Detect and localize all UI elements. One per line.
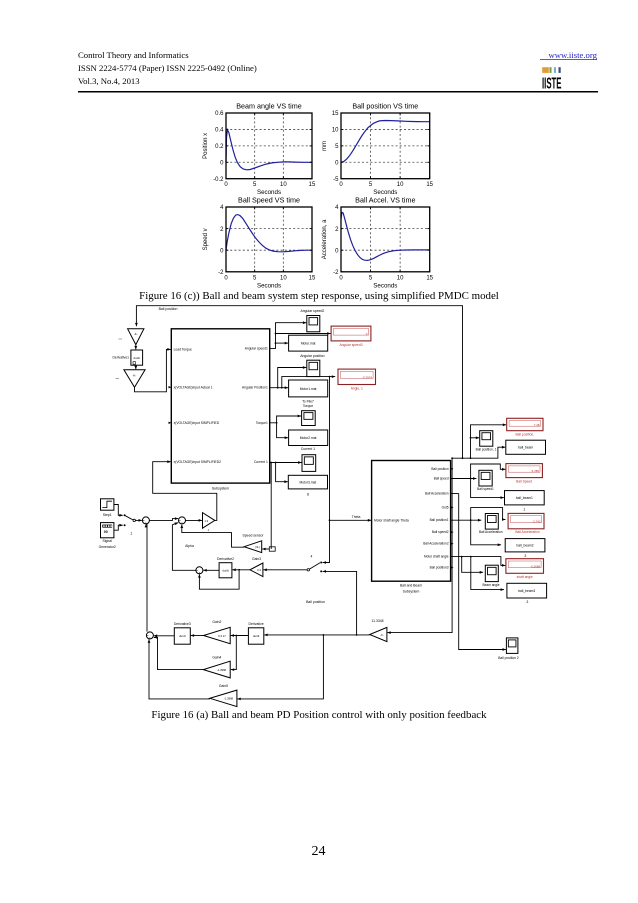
svg-text:Figure 16 (c)) Ball and beam: Figure 16 (c)) Ball and beam system step… [139, 290, 499, 302]
block Derivative3 [174, 622, 191, 644]
svg-text:Theta: Theta [352, 515, 361, 519]
svg-text:ISSN 2224-5774 (Paper) ISSN 22: ISSN 2224-5774 (Paper) ISSN 2225-0492 (O… [78, 63, 257, 73]
svg-text:5: 5 [335, 144, 339, 150]
svg-text:-K-: -K- [380, 633, 384, 637]
scope Torque [302, 411, 316, 426]
svg-text:2: 2 [220, 227, 224, 233]
block Derivative [248, 622, 263, 644]
wire speed sensor to sum2 [182, 525, 244, 548]
svg-text:Motor1.mat: Motor1.mat [300, 387, 317, 391]
plot xticklabels Ball position VS time [339, 182, 433, 188]
svg-text:Derivative2: Derivative2 [217, 557, 234, 561]
to-file Motor1.mat [289, 380, 328, 397]
svg-text:Ball position, 1: Ball position, 1 [476, 448, 497, 452]
wire theta down to switch2 top [323, 520, 330, 562]
wire Ball speed main [451, 477, 477, 480]
scope Ball position 2 [498, 638, 519, 660]
svg-text:Motor2.mat: Motor2.mat [300, 436, 317, 440]
svg-text:00: 00 [104, 530, 108, 534]
svg-text:5: 5 [369, 275, 373, 281]
svg-text:11.3348: 11.3348 [371, 619, 383, 623]
svg-text:mm: mm [322, 141, 328, 151]
svg-text:-2: -2 [218, 270, 224, 276]
svg-text:Beam angle: Beam angle [482, 583, 499, 587]
plot axes Ball position VS time [341, 113, 430, 179]
block Derivative2 [217, 557, 234, 578]
wire sum1 to sum2 [149, 519, 178, 521]
svg-text:Signal: Signal [102, 539, 112, 543]
scope Ball Acceleration [479, 514, 503, 535]
svg-text:(r/L): (r/L) [255, 545, 260, 549]
svg-text:Subsystem: Subsystem [403, 590, 420, 594]
plot curve Ball Accel. VS time [341, 212, 430, 260]
block Derivative1 [113, 350, 143, 365]
svg-text:Ball speed: Ball speed [434, 476, 449, 480]
wire gain output to VOLTAGE SIMPLIFIED2 input [153, 462, 217, 521]
plot xticklabels Beam angle VS time [224, 182, 316, 188]
svg-text:5: 5 [369, 182, 373, 188]
svg-text:Ball speed1: Ball speed1 [477, 487, 494, 491]
svg-text:Gain5: Gain5 [219, 684, 228, 688]
svg-text:Load Torque: Load Torque [174, 348, 192, 352]
svg-text:Speed sensor: Speed sensor [243, 533, 265, 537]
wire ball position feedback loop [136, 306, 462, 459]
svg-text:Ball position3: Ball position3 [430, 566, 449, 570]
svg-text:0: 0 [224, 275, 228, 281]
to-file Motor3.mat [288, 475, 327, 496]
plot curve Ball position VS time [341, 121, 430, 163]
wire Derivative2 to sum3 [203, 569, 219, 571]
svg-text:Derivative3: Derivative3 [174, 622, 191, 626]
svg-text:Ball speed2: Ball speed2 [432, 530, 449, 534]
svg-text:Angular speed3: Angular speed3 [339, 343, 362, 347]
svg-text:ball_beam3: ball_beam3 [518, 589, 535, 593]
svg-text:du/dt: du/dt [179, 634, 186, 638]
svg-text:7.48: 7.48 [534, 423, 540, 427]
sum junction sum4 [146, 632, 153, 639]
port arrow input Actual1 [169, 386, 172, 388]
svg-text:Motor shaft angle Theta: Motor shaft angle Theta [374, 519, 409, 523]
svg-text:Figure 16 (a) Ball and beam P: Figure 16 (a) Ball and beam PD Position … [151, 709, 487, 721]
scope Angular speed2 [301, 309, 325, 332]
svg-text:Out5: Out5 [442, 506, 449, 510]
switch Manual Switch2 [307, 554, 322, 572]
svg-text:0: 0 [224, 182, 228, 188]
svg-text:To File7: To File7 [302, 399, 314, 403]
wire K1 to Derivative1 [135, 345, 137, 350]
svg-text:x(VOLTAGE)Input SIMPLIFIED: x(VOLTAGE)Input SIMPLIFIED [174, 421, 220, 425]
svg-text:1.3: 1.3 [204, 519, 208, 523]
svg-text:0: 0 [335, 160, 339, 166]
svg-text:Gain4: Gain4 [212, 656, 221, 660]
plot axes Ball Accel. VS time [341, 207, 430, 272]
wire ball position to K gain [387, 457, 453, 634]
plot curve Beam angle VS time [226, 130, 312, 170]
svg-text:Ball position 2: Ball position 2 [498, 656, 519, 660]
svg-text:Seconds: Seconds [257, 282, 281, 289]
wire Gain2 to Derivative3 [191, 635, 204, 637]
header rule [78, 91, 598, 93]
wire sum4 to sum1 feedback riser [146, 524, 147, 631]
svg-text:6.788: 6.788 [532, 469, 540, 473]
svg-text:10: 10 [332, 128, 339, 134]
wire Theta feed [329, 377, 372, 522]
wire Derivative1 to K2 [135, 365, 137, 369]
wire angular speed down to speed sensor [262, 463, 275, 552]
svg-text:Alpha: Alpha [185, 544, 194, 548]
wire Kgain output to switch2 bottom [323, 570, 358, 636]
svg-text:15: 15 [426, 182, 433, 188]
scope Ball speed1 [477, 470, 494, 491]
svg-text:0: 0 [335, 248, 339, 254]
display Ball Acceleration [508, 513, 544, 528]
svg-text:x(VOLTAGE)Input SIMPLIFIED2: x(VOLTAGE)Input SIMPLIFIED2 [174, 460, 221, 464]
svg-text:du/dt: du/dt [222, 568, 229, 572]
plot xticklabels Ball Accel. VS time [339, 275, 433, 281]
svg-text:shaft angle: shaft angle [517, 575, 533, 579]
svg-text:du/dt: du/dt [253, 634, 260, 638]
svg-text:Derivative1: Derivative1 [113, 356, 130, 360]
plot xticklabels Ball Speed VS time [224, 275, 316, 281]
sum junction sum1 [142, 517, 149, 524]
plot yticklabels Ball position VS time [332, 111, 339, 183]
port arrow Out5 [451, 506, 454, 508]
wire Ball speed to ball_beam1 [471, 479, 504, 498]
svg-text:Ball position,: Ball position, [515, 433, 534, 437]
svg-text:0.6: 0.6 [215, 111, 224, 117]
svg-text:Speed v: Speed v [203, 228, 209, 250]
svg-text:-0.2: -0.2 [213, 177, 224, 183]
display Ball Speed [506, 464, 543, 478]
plot gridlines Ball Accel. VS time [341, 207, 430, 272]
svg-text:-2.742: -2.742 [532, 520, 541, 524]
svg-text:Ball position: Ball position [431, 467, 448, 471]
svg-text:www.iiste.org: www.iiste.org [548, 50, 597, 60]
svg-text:-K-: -K- [133, 373, 137, 377]
port arrow Ball position3 [451, 566, 454, 568]
wire sum2 to gain Alpha [186, 519, 203, 521]
gain Gain2 [204, 620, 231, 644]
svg-text:Ball Acceleration: Ball Acceleration [515, 530, 540, 534]
svg-text:5: 5 [253, 182, 257, 188]
scope Beam angle [482, 565, 499, 587]
svg-text:15: 15 [309, 182, 316, 188]
gain Gain5 [210, 684, 237, 707]
wire Current1 to Motor3.mat [276, 463, 288, 482]
svg-text:Acceleration, a: Acceleration, a [322, 219, 328, 259]
svg-text:ball_beam2: ball_beam2 [517, 544, 534, 548]
port arrow Ball speed2 [451, 531, 454, 533]
svg-text:Motor shaft angle: Motor shaft angle [424, 555, 449, 559]
svg-text:-1.3968: -1.3968 [217, 668, 227, 672]
svg-text:Angular speed2: Angular speed2 [301, 309, 325, 313]
plot gridlines Ball position VS time [341, 113, 430, 179]
svg-text:0: 0 [339, 275, 343, 281]
wire to display shaft angle [471, 557, 506, 566]
svg-text:Step1: Step1 [103, 513, 112, 517]
svg-text:x(VOLTAGE)Input Actual 1: x(VOLTAGE)Input Actual 1 [174, 385, 213, 389]
IISTE logo [542, 67, 562, 92]
gain K2 [124, 370, 145, 388]
svg-text:4: 4 [311, 554, 313, 558]
switch Manual Switch1 [124, 514, 136, 535]
svg-text:Motor3.mat: Motor3.mat [300, 480, 317, 484]
wire K2 to Load Torque [135, 349, 171, 391]
block Subsystem PMDC [171, 329, 269, 491]
wire Torque1 to scope [270, 415, 301, 424]
wire Ball position to display [471, 425, 507, 458]
plot yticklabels Ball Speed VS time [218, 205, 224, 276]
svg-text:-2: -2 [333, 270, 339, 276]
wire Ball position1 main [451, 519, 482, 522]
svg-text:Torque1: Torque1 [256, 421, 268, 425]
wire sum3 to sum2 [172, 523, 196, 571]
svg-text:Ball Acceleration2: Ball Acceleration2 [423, 542, 449, 546]
svg-text:Beam angle VS time: Beam angle VS time [236, 102, 302, 111]
header website link [540, 50, 598, 60]
display Ball position [507, 418, 543, 430]
svg-text:Angular position: Angular position [300, 354, 324, 358]
scope Angular position [300, 354, 324, 377]
svg-text:0: 0 [366, 332, 368, 336]
wire Ball speed to display [471, 464, 506, 479]
svg-text:Position x: Position x [203, 133, 209, 159]
to-file ball_beam2 [505, 539, 545, 559]
wire Ball position main [452, 446, 505, 459]
port arrow Ball Acceleration2 [451, 543, 454, 545]
wire Gain3 to Derivative2 [232, 569, 250, 571]
wire Step1 to switch1 [114, 505, 123, 516]
svg-text:4: 4 [335, 205, 339, 211]
wire Gain4 to sum4 [154, 637, 204, 669]
plot yticklabels Ball Accel. VS time [333, 205, 339, 276]
to-file Motor2.mat [289, 430, 328, 446]
wire Angular Position1 to Motor1.mat [270, 386, 288, 389]
svg-text:10: 10 [280, 182, 287, 188]
to-file Motor.mat [289, 335, 328, 351]
gain Gain4 [203, 656, 230, 678]
svg-text:Current 1: Current 1 [254, 460, 268, 464]
wire switch2 to Gain3 [263, 569, 307, 571]
svg-text:Current 1: Current 1 [301, 447, 315, 451]
svg-text:Ball Acceleration: Ball Acceleration [425, 492, 449, 496]
svg-text:Motor.mat: Motor.mat [301, 341, 316, 345]
scope Ball position 1 [476, 431, 497, 452]
svg-text:0.2: 0.2 [215, 144, 224, 150]
svg-text:4: 4 [220, 205, 224, 211]
wire Gain5 to sum4 [149, 639, 210, 699]
block Signal Generator2 [99, 523, 116, 549]
svg-text:ball_beam1: ball_beam1 [516, 496, 533, 500]
wire Angular Position1 to display Angle [282, 375, 335, 388]
display Angular speed3 [331, 326, 371, 341]
wire Current1 to scope [270, 461, 302, 464]
display shaft angle [506, 559, 544, 574]
wire Ball position to scope [470, 436, 480, 439]
svg-text:Angle, 1: Angle, 1 [351, 387, 363, 391]
svg-text:Ball position1: Ball position1 [430, 518, 449, 522]
wire Angular speed1 to Motor.mat [276, 342, 289, 344]
svg-text:Ball Speed: Ball Speed [516, 480, 532, 484]
svg-text:IISTE: IISTE [542, 75, 562, 92]
svg-text:Subsystem: Subsystem [212, 486, 229, 490]
svg-text:Derivative: Derivative [249, 622, 264, 626]
svg-text:-0.2974: -0.2974 [362, 375, 372, 379]
wire Angular Position1 to scope [278, 368, 307, 388]
svg-text:10: 10 [397, 182, 404, 188]
svg-text:-K-: -K- [134, 332, 138, 336]
plot gridlines Beam angle VS time [226, 113, 312, 179]
to-file ball_beam3 [507, 583, 547, 604]
to-file ball_beam1 [505, 491, 545, 512]
wire Derivative to Gain2 [231, 634, 249, 637]
svg-text:-1.3968: -1.3968 [224, 697, 234, 701]
block Step1 [101, 499, 114, 517]
wire to Gain5 [237, 634, 324, 700]
svg-text:Seconds: Seconds [373, 282, 397, 289]
block Ball and Beam Subsystem [372, 461, 451, 594]
svg-text:Vol.3, No.4, 2013: Vol.3, No.4, 2013 [78, 76, 140, 86]
wire switch1 to sum1 [135, 519, 142, 521]
plot axes Ball Speed VS time [226, 207, 312, 272]
wire SignalGenerator2 to switch1 [114, 525, 123, 530]
gain K1 [128, 329, 144, 345]
to-file ball_beam [506, 440, 546, 454]
svg-text:Generator2: Generator2 [99, 545, 116, 549]
svg-text:Angular speed1: Angular speed1 [245, 347, 268, 351]
svg-text:6.3 17: 6.3 17 [218, 634, 226, 638]
svg-text:15: 15 [309, 275, 316, 281]
svg-text:0: 0 [220, 160, 224, 166]
wire to display Ball Acceleration [471, 508, 506, 521]
wire K output to Derivative [264, 634, 370, 636]
svg-text:24: 24 [312, 844, 326, 859]
gain Speed sensor [243, 533, 265, 552]
port arrow input SIMPLIFIED [169, 422, 172, 424]
gain K1 dash mark [119, 338, 123, 340]
svg-text:0: 0 [339, 182, 343, 188]
plot yticklabels Beam angle VS time [213, 111, 224, 183]
svg-text:-5: -5 [333, 177, 339, 183]
svg-text:Ball and Beam: Ball and Beam [400, 584, 422, 588]
wire to ball_beam2 [471, 520, 501, 545]
scope Current [302, 455, 316, 472]
svg-text:10: 10 [280, 275, 287, 281]
svg-text:Ball Acceleration: Ball Acceleration [479, 530, 503, 534]
plot axes Beam angle VS time [226, 113, 312, 179]
wire Derivative3 to sum4 [154, 635, 175, 637]
gain K2 dash mark [116, 378, 120, 380]
svg-text:.1: .1 [130, 531, 133, 535]
svg-text:ball_beam: ball_beam [518, 446, 533, 450]
svg-text:1: 1 [208, 528, 210, 532]
svg-text:Ball position: Ball position [159, 307, 178, 311]
svg-text:5: 5 [253, 275, 257, 281]
gain Gain3 [250, 557, 263, 577]
display Angle 1 [338, 369, 376, 384]
svg-text:.3: .3 [524, 554, 527, 558]
svg-text:.1: .1 [523, 508, 526, 512]
svg-text:Gain3: Gain3 [252, 557, 261, 561]
svg-text:Angular Position1: Angular Position1 [242, 385, 268, 389]
svg-text:Ball Accel. VS time: Ball Accel. VS time [355, 196, 415, 205]
gain K 11.3348 [370, 619, 387, 642]
wire Ball Acceleration to Ball position 2 [451, 494, 506, 651]
plot gridlines Ball Speed VS time [226, 207, 312, 272]
svg-text:10: 10 [397, 275, 404, 281]
svg-text:.3: .3 [526, 600, 529, 604]
svg-text:-0.2698: -0.2698 [530, 565, 540, 569]
svg-text:3.3: 3.3 [257, 568, 261, 572]
svg-text:du/dt: du/dt [134, 356, 141, 360]
svg-text:Gain2: Gain2 [212, 620, 221, 624]
wire Torque1 to Motor2.mat [277, 423, 289, 438]
gain Alpha 1.3 [203, 513, 215, 529]
svg-text:Torque: Torque [303, 404, 313, 408]
wire Motor shaft angle main [451, 556, 472, 558]
svg-text:0.4: 0.4 [215, 128, 224, 134]
wire to ball_beam3 [471, 557, 504, 590]
svg-text:Control Theory and Informatics: Control Theory and Informatics [78, 50, 189, 60]
svg-text:Ball position VS time: Ball position VS time [352, 102, 418, 111]
svg-text:0: 0 [220, 248, 224, 254]
plot curve Ball Speed VS time [226, 215, 312, 252]
svg-text:Ball position: Ball position [306, 600, 325, 604]
sum junction sum2 [179, 517, 186, 524]
wire Angular speed1 to display [276, 333, 331, 335]
wire drop to Gain4 [231, 636, 237, 670]
svg-text:15: 15 [426, 275, 433, 281]
svg-text:2: 2 [335, 227, 339, 233]
sum junction sum3 [196, 567, 203, 574]
svg-text:15: 15 [332, 111, 339, 117]
wire Angular speed1 to scope [270, 321, 307, 348]
wire to scope Beam angle [462, 557, 483, 573]
svg-text:Ball Speed VS time: Ball Speed VS time [238, 196, 300, 205]
svg-text:8: 8 [307, 493, 309, 497]
wire sum3 bypass loop [198, 569, 240, 589]
